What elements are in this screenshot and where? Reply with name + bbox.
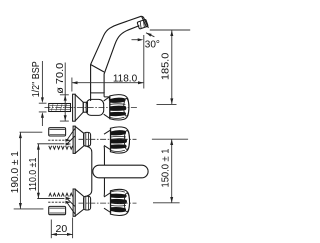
centerline of side view xyxy=(45,107,138,109)
wall flange (plan) xyxy=(73,126,84,153)
spout tip aerator xyxy=(137,16,148,29)
bonnet (plan) xyxy=(104,130,111,150)
handle knob (side view) xyxy=(110,95,129,120)
inlet assembly (bottom: cold) mirrored xyxy=(37,189,136,216)
svg-text:1/2" BSP: 1/2" BSP xyxy=(30,61,42,97)
spout (plan view, capsule) xyxy=(93,165,148,178)
dimension 150.0 ±1 xyxy=(152,139,188,203)
centerline (valve axis) xyxy=(79,138,137,140)
threaded nipple (plan) xyxy=(49,128,66,136)
svg-text:185.0: 185.0 xyxy=(160,52,172,80)
dimension 1/2" BSP label + leader xyxy=(39,61,47,126)
handle knob (plan) xyxy=(110,127,129,153)
svg-text:30°: 30° xyxy=(145,39,160,50)
threaded nipple 1/2 BSP (side view) xyxy=(49,104,71,112)
svg-text:20: 20 xyxy=(56,223,68,235)
valve barrel xyxy=(84,132,91,146)
dimension 190.0 ±1 xyxy=(14,132,44,209)
ghost thread (eccentric swing position) xyxy=(37,129,75,150)
spout tube (side view) xyxy=(91,16,142,93)
body (side view) xyxy=(83,99,104,115)
svg-text:150.0 ± 1: 150.0 ± 1 xyxy=(159,148,171,187)
dimension 30 degrees xyxy=(132,33,155,40)
svg-text:118.0: 118.0 xyxy=(113,74,138,85)
svg-text:ø 70.0: ø 70.0 xyxy=(54,63,66,94)
spout union nut / collar xyxy=(91,93,110,101)
inlet assembly (top: hot) xyxy=(37,126,136,153)
dimension ø 70.0 xyxy=(60,63,69,122)
dimension 185.0 xyxy=(150,30,190,104)
dimension 110.0 ±1 xyxy=(37,144,39,198)
dimension 118.0 xyxy=(72,35,144,92)
body tube (plan view) xyxy=(87,146,105,196)
wall flange (escutcheon, side view) xyxy=(73,94,84,121)
dimension 20 xyxy=(51,218,72,239)
svg-text:110.0 ±1: 110.0 ±1 xyxy=(27,158,39,192)
svg-text:190.0 ± 1: 190.0 ± 1 xyxy=(9,151,21,193)
bonnet (side view) xyxy=(104,97,110,119)
